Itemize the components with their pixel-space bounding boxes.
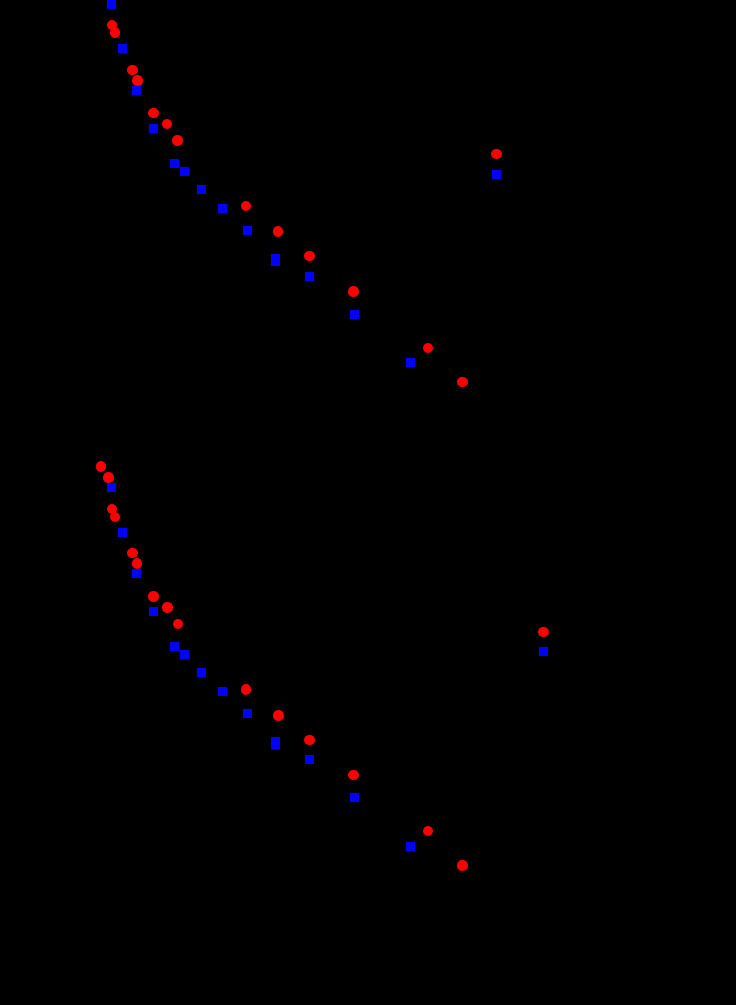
top panel blue square marker 4 [149, 124, 158, 133]
top panel red circle marker 13 [457, 377, 468, 388]
top panel red circle marker 1 [107, 20, 118, 31]
top panel blue square marker 2 [118, 44, 127, 53]
bottom panel red circle marker 7 [148, 591, 159, 602]
bottom panel legend blue square [539, 647, 548, 656]
bottom panel red circle marker 13 [348, 770, 359, 781]
bottom panel red circle marker 12 [304, 735, 315, 746]
bottom panel blue square marker 11 [305, 755, 314, 764]
bottom panel red circle marker 5 [127, 548, 138, 559]
top panel red circle marker 7 [172, 135, 183, 146]
top panel legend red circle [491, 149, 502, 160]
bottom panel red circle marker 9 [173, 619, 184, 630]
top panel blue square marker 13 [406, 358, 415, 367]
top panel blue square marker 7 [197, 185, 206, 194]
bottom panel legend red circle [538, 627, 549, 638]
bottom panel red circle marker 15 [457, 860, 468, 871]
top panel blue square marker 8 [218, 204, 227, 213]
top panel blue square marker 9 [243, 226, 252, 235]
bottom panel blue square marker 4 [149, 607, 158, 616]
top panel blue square marker 6 [180, 167, 189, 176]
bottom panel blue square marker 7 [197, 668, 206, 677]
bottom panel blue square marker 5 [170, 642, 179, 651]
bottom panel red circle marker 3 [107, 504, 118, 515]
top panel blue square marker 10a (overlapping pair) [271, 254, 280, 263]
top panel red circle marker 11 [348, 286, 359, 297]
bottom panel blue square marker 2 [118, 528, 127, 537]
bottom panel red circle marker 2 [103, 472, 114, 483]
bottom panel red circle marker 8 [162, 602, 173, 613]
top panel red circle marker 3 [127, 65, 138, 76]
top panel blue square marker 11 [305, 272, 314, 281]
bottom panel blue square marker 8 [218, 687, 227, 696]
bottom panel blue square marker 10b (overlapping pair) [271, 740, 280, 749]
bottom panel blue square marker 13 [406, 842, 415, 851]
top panel red circle marker 6 [162, 119, 173, 130]
top panel blue square marker 3 [132, 86, 141, 95]
top panel red circle marker 9 [273, 226, 284, 237]
top panel blue square marker 12 [350, 310, 359, 319]
top panel blue square marker 1 [107, 0, 116, 9]
top panel red circle marker 8 [241, 201, 252, 212]
bottom panel red circle marker 4 [110, 512, 121, 523]
bottom panel red circle marker 10 [241, 684, 252, 695]
top panel legend blue square [492, 170, 501, 179]
top panel blue square marker 5 [170, 159, 179, 168]
top panel red circle marker 5 [148, 108, 159, 119]
bottom panel red circle marker 11 [273, 710, 284, 721]
top panel blue square marker 10b (overlapping pair) [271, 257, 280, 266]
bottom panel red circle marker 14 [423, 826, 434, 837]
bottom panel blue square marker 9 [243, 709, 252, 718]
top panel red circle marker 10 [304, 251, 315, 262]
top panel red circle marker 2 [110, 27, 121, 38]
top panel red circle marker 12 [423, 343, 434, 354]
bottom panel blue square marker 10a (overlapping pair) [271, 737, 280, 746]
bottom panel blue square marker 3 [132, 569, 141, 578]
bottom panel blue square marker 12 [350, 793, 359, 802]
bottom panel red circle marker 6 [132, 558, 143, 569]
bottom panel blue square marker 1 [107, 483, 116, 492]
bottom panel blue square marker 6 [180, 650, 189, 659]
bottom panel red circle marker 1 [96, 461, 107, 472]
top panel red circle marker 4 [132, 75, 143, 86]
